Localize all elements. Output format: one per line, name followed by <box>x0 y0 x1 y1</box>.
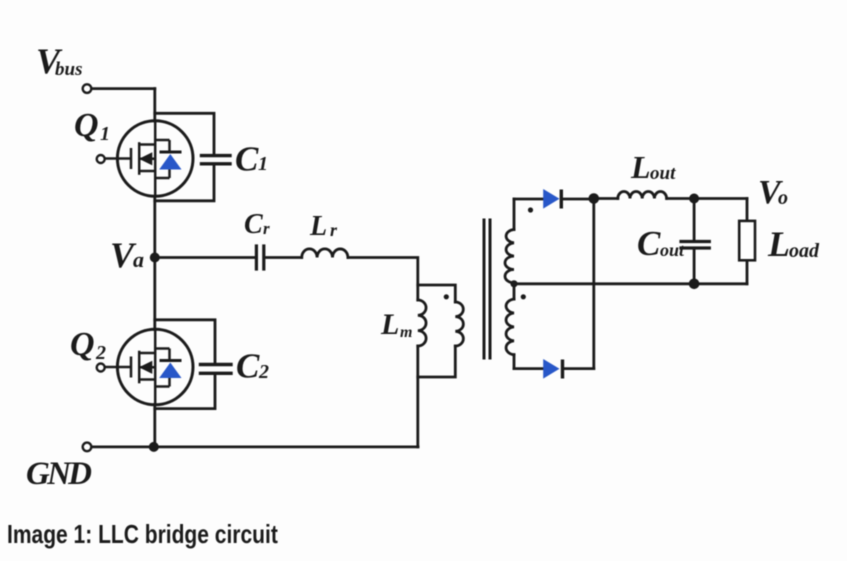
dot secondary upper polarity <box>528 207 533 212</box>
wire Cr to Lr <box>264 256 302 259</box>
svg-text:oad: oad <box>789 240 820 262</box>
node Va <box>150 253 160 263</box>
diode D1 <box>543 189 561 209</box>
wire D1 cathode to node <box>563 198 594 201</box>
wire rectifier vertical <box>592 199 595 369</box>
node Cout bottom <box>689 279 700 290</box>
transformer primary winding <box>455 302 463 346</box>
svg-text:C: C <box>236 347 260 386</box>
inductor Lout <box>618 191 667 198</box>
capacitor C2 <box>201 365 232 374</box>
wire C2 branch top <box>155 320 215 363</box>
wire primary bottom branch <box>418 346 456 377</box>
capacitor Cout <box>681 242 709 249</box>
transistor Q2 <box>105 329 193 405</box>
wire Lout to load branch <box>667 197 747 200</box>
wire C1 branch bottom <box>155 166 214 201</box>
wire secondary left vertical bottom <box>513 355 516 369</box>
capacitor Cr <box>256 246 263 269</box>
wire load top <box>746 199 749 222</box>
svg-text:out: out <box>650 163 676 184</box>
terminal gate Q1 <box>97 155 105 163</box>
dot secondary lower polarity <box>521 294 526 299</box>
svg-text:L: L <box>380 308 399 341</box>
wire secondary top <box>514 198 543 201</box>
transistor Q1 <box>105 121 193 197</box>
wire load bottom <box>746 260 749 284</box>
transformer secondary lower winding <box>506 299 514 355</box>
wire secondary bottom <box>514 367 543 370</box>
resistor Load <box>739 221 755 260</box>
wire bus vertical to Q1 <box>153 89 156 121</box>
wire output bottom right <box>694 282 747 285</box>
svg-text:2: 2 <box>258 361 269 383</box>
wire Lr to primary branch <box>348 258 418 301</box>
wire primary top branch <box>418 285 456 302</box>
capacitor C1 <box>202 156 231 164</box>
transformer core <box>483 220 486 358</box>
inductor Lm winding <box>418 300 426 346</box>
wire C1 branch top <box>155 113 214 154</box>
node Lout-Cout <box>689 194 699 204</box>
wire C2 branch bottom <box>155 375 215 409</box>
svg-text:Q: Q <box>70 326 95 363</box>
svg-text:m: m <box>400 324 412 341</box>
wire D2 cathode to vertical <box>565 367 594 370</box>
svg-text:r: r <box>330 220 338 240</box>
inductor Lr <box>302 249 348 258</box>
terminal gate Q2 <box>97 364 105 372</box>
wire Cout stem bottom <box>693 250 696 284</box>
svg-text:L: L <box>309 211 327 242</box>
wire center tap stubs <box>513 283 516 299</box>
wire Cout stem top <box>693 199 696 241</box>
svg-text:1: 1 <box>100 123 110 145</box>
body diode Q1 <box>160 151 182 154</box>
wire ground rail <box>91 445 418 448</box>
wire Va to Q2 <box>153 258 156 330</box>
svg-text:2: 2 <box>95 342 106 364</box>
caption <box>7 521 278 547</box>
terminal Vbus <box>83 84 92 93</box>
wire node to Lout <box>594 197 618 200</box>
node rectifier output <box>589 193 600 204</box>
svg-text:L: L <box>767 224 790 264</box>
svg-text:a: a <box>133 247 144 272</box>
transformer secondary upper winding <box>505 230 514 283</box>
svg-text:r: r <box>263 219 270 238</box>
svg-text:Q: Q <box>74 107 99 144</box>
wire secondary left vertical top <box>513 199 516 230</box>
wire Lm to ground rail <box>416 346 419 447</box>
node ground junction <box>149 442 159 452</box>
svg-text:GND: GND <box>26 456 92 492</box>
diode D2 <box>543 359 562 379</box>
svg-text:C: C <box>244 209 263 240</box>
wire drain Q1 to Va <box>153 197 156 258</box>
dot primary polarity <box>444 294 449 299</box>
terminal GND <box>83 443 92 452</box>
svg-text:L: L <box>630 149 651 185</box>
svg-text:out: out <box>660 240 685 260</box>
body diode Q2 <box>160 359 182 362</box>
svg-text:o: o <box>778 187 788 209</box>
svg-text:bus: bus <box>55 59 82 80</box>
svg-text:C: C <box>235 140 259 179</box>
wire Va to Cr <box>155 256 256 259</box>
wire Vbus horizontal <box>91 87 155 90</box>
wire center tap to output <box>514 282 694 285</box>
wire Q2 source to ground rail <box>153 405 156 447</box>
node center tap <box>510 280 517 287</box>
svg-text:1: 1 <box>258 153 268 175</box>
svg-text:C: C <box>637 224 661 263</box>
